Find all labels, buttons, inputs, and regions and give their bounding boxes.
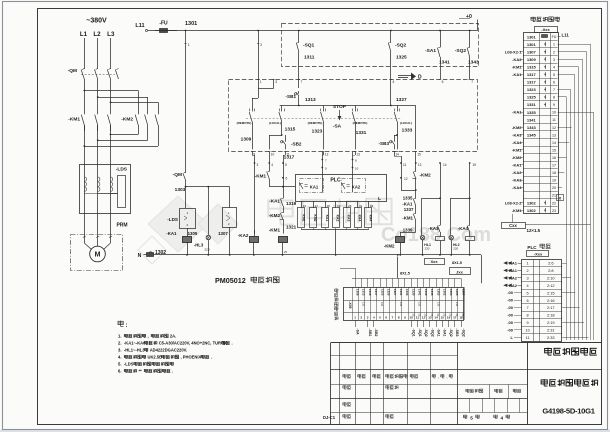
svg-text:2:15: 2:15 [547,290,555,295]
svg-text:1337: 1337 [404,207,414,212]
svg-text:DJ-C1: DJ-C1 [323,415,336,420]
svg-text:-KA3: -KA3 [512,132,522,137]
svg-text:1307: 1307 [461,289,465,296]
push button SB3 [396,134,398,136]
svg-text:1335: 1335 [412,289,416,296]
svg-text:1302: 1302 [155,250,166,256]
svg-text:4: 4 [527,284,529,288]
svg-text:2:10: 2:10 [547,276,555,281]
wire cascade right margin [558,44,591,46]
svg-text:-SQ1: -SQ1 [303,43,315,49]
svg-text:(LOCAL): (LOCAL) [400,121,412,125]
svg-text:1313: 1313 [305,97,316,103]
terminal strip feeder comb [352,278,461,280]
svg-text:-SA: -SA [356,329,360,336]
svg-text:3: 3 [527,277,529,281]
svg-text:-SB2: -SB2 [374,329,378,337]
svg-text:-KM1: -KM1 [512,64,523,69]
svg-text:-SQ2: -SQ2 [449,329,453,337]
cable box Kxx [425,259,445,265]
aux contact QM control [185,31,187,172]
svg-text:220: 220 [425,247,430,251]
svg-text:2: 2 [260,43,262,47]
svg-text:11: 11 [416,316,420,320]
svg-text:12×1.5: 12×1.5 [527,228,541,233]
wire to KM2 rail [415,106,417,150]
svg-text:-KA3: -KA3 [512,178,522,183]
svg-text:-SB3: -SB3 [455,329,459,337]
svg-text:KA1: KA1 [310,184,319,189]
wire rails below control box [252,152,254,156]
svg-text:-SA1: -SA1 [425,48,436,54]
svg-text:1309: 1309 [355,289,359,296]
wire phase feeders [84,38,86,68]
svg-text:131: 131 [436,302,440,307]
selector SA column 2 [281,106,283,112]
svg-text:5: 5 [527,291,529,295]
svg-text:12: 12 [404,177,408,181]
svg-text:.: . [232,341,233,346]
rail KA3 lamp HL1 [440,163,442,224]
contact KM2 nc [415,163,417,170]
svg-text:5: 5 [470,416,473,421]
svg-text:1: 1 [188,43,190,47]
svg-text:1: 1 [553,43,555,47]
svg-text:20: 20 [552,186,556,190]
direction arrow D [398,75,411,77]
revision row labels [343,374,346,378]
svg-text:1311: 1311 [304,55,315,61]
svg-text:-00: -00 [507,298,514,303]
svg-text:1327: 1327 [393,289,397,296]
svg-text:KA4: KA4 [368,215,372,222]
cable box Jxx [450,268,471,275]
push button SB1 [298,79,300,88]
svg-text:2:19: 2:19 [547,320,555,325]
svg-text:, PHOENIX: , PHOENIX [181,355,202,360]
svg-text:220: 220 [453,247,458,251]
limit switch SQ2 [390,31,392,42]
svg-text:13: 13 [552,133,556,137]
rail KA4 lamp HL2 [469,163,471,224]
svg-text:2:16: 2:16 [547,298,555,303]
svg-text:-Xxx: -Xxx [541,27,550,32]
svg-text:15: 15 [552,148,556,152]
svg-text:1317: 1317 [527,72,537,77]
project name title [545,348,552,355]
svg-text:1301: 1301 [185,21,197,27]
svg-text:131: 131 [418,302,422,307]
svg-text:11: 11 [286,153,290,157]
svg-text:220: 220 [204,248,209,252]
svg-text:131: 131 [455,302,459,307]
limit switch enclosure dashed box [282,24,479,67]
drawing name title [541,379,547,386]
svg-text:-KM2: -KM2 [121,117,133,123]
svg-text:1: 1 [527,262,529,266]
svg-text:-SA1: -SA1 [443,329,447,337]
svg-text:KA2: KA2 [352,184,361,189]
svg-text:17: 17 [453,316,457,320]
svg-text:-KA1: -KA1 [269,199,280,204]
svg-text:-KA4: -KA4 [458,226,469,231]
svg-text:17: 17 [552,164,556,168]
svg-text:8: 8 [553,96,555,100]
svg-text:11: 11 [526,336,530,340]
svg-text:1319: 1319 [286,201,297,206]
motor enclosure dash-dot box [71,235,123,271]
contact KA1 1319 [283,197,285,198]
svg-text:10: 10 [410,316,414,320]
motor protector LDS box [180,209,196,229]
title block frame [331,342,602,344]
svg-text:(REMOTE): (REMOTE) [308,121,323,125]
svg-text:1307: 1307 [527,49,537,54]
svg-text:8X1.5: 8X1.5 [452,261,462,265]
svg-text:-KA1: -KA1 [166,231,177,236]
svg-text:1333: 1333 [405,289,409,296]
svg-text:5: 5 [285,163,287,167]
svg-text:-KA1: -KA1 [512,110,522,115]
svg-text:-SB2: -SB2 [291,142,302,147]
svg-text:**: ** [139,369,143,374]
svg-text:PLC: PLC [527,245,537,250]
svg-text:7: 7 [471,80,473,84]
svg-text:PRM: PRM [116,223,127,229]
svg-text:-KA1: -KA1 [402,202,413,207]
svg-text:(REMOTE): (REMOTE) [237,121,252,125]
svg-text:1315: 1315 [527,65,537,70]
svg-text:16: 16 [447,316,451,320]
svg-text:-LDS: -LDS [116,167,128,173]
fuse mark row1 [542,35,548,38]
svg-text:L11: L11 [562,32,570,37]
svg-text:5.: 5. [118,362,122,367]
svg-text:1345: 1345 [527,132,537,137]
svg-text:-SB1: -SB1 [286,94,297,99]
svg-text:8X1.5: 8X1.5 [400,272,410,276]
svg-text:Xxx: Xxx [430,259,438,264]
svg-text:10: 10 [525,329,529,333]
wire bus in control box [280,105,416,107]
svg-text:-X05: -X05 [348,301,352,308]
svg-text:-00: -00 [507,290,514,295]
svg-text:6.: 6. [118,369,122,374]
svg-text:1333: 1333 [402,128,413,134]
svg-text:18: 18 [459,316,463,320]
svg-text:15: 15 [441,316,445,320]
svg-text:12: 12 [422,316,426,320]
svg-text:4: 4 [553,65,555,69]
coil KM1 [279,237,288,243]
svg-text:-KM2: -KM2 [384,244,395,249]
svg-text:1341: 1341 [418,289,422,296]
svg-text:12: 12 [325,153,329,157]
svg-text:(REMOTE): (REMOTE) [353,121,368,125]
svg-text:1335: 1335 [527,110,537,115]
svg-text:4: 4 [271,163,273,167]
svg-text:1343: 1343 [527,125,537,130]
flow switch LDS2 1307 [229,187,231,208]
svg-text:-SQ2: -SQ2 [455,48,467,54]
branch to HL3 and LDS2 [186,186,230,188]
svg-text:-00: -00 [507,320,514,325]
svg-text:L08-X2-2: L08-X2-2 [505,200,522,205]
svg-text:1302: 1302 [443,289,447,296]
table low voltage pump terminals [524,33,559,214]
svg-text:7: 7 [553,88,555,92]
svg-text:1307: 1307 [218,231,228,236]
limit switch SQ1 [298,31,300,42]
svg-text:-HL3: -HL3 [194,243,204,248]
svg-text:10: 10 [271,153,275,157]
svg-text:5: 5 [553,73,555,77]
current transformer box LDS [80,165,131,214]
svg-text:-KA1~-KA6: -KA1~-KA6 [124,341,146,346]
svg-text:1323: 1323 [527,87,537,92]
terminal strip field wires [355,320,357,327]
svg-text:1.: 1. [118,334,122,339]
svg-text:14: 14 [443,163,447,167]
svg-text:1301: 1301 [527,42,537,47]
svg-text:1323: 1323 [312,129,323,135]
svg-text:-FU: -FU [159,21,168,27]
sheet count [463,415,467,419]
notes title [118,321,123,327]
svg-text:7: 7 [527,306,529,310]
svg-text:6: 6 [286,177,288,181]
PLC input contact row [301,201,303,208]
svg-text:-SA: -SA [333,124,342,130]
svg-text:9: 9 [553,103,555,107]
svg-text:10: 10 [552,111,556,115]
svg-text:1315: 1315 [285,127,296,133]
svg-text:21: 21 [552,194,556,198]
svg-text:KM1: KM1 [301,214,305,221]
svg-text:1331: 1331 [356,130,367,136]
svg-text::: : [126,323,128,329]
svg-text:14: 14 [395,153,399,157]
svg-text:2: 2 [527,269,529,273]
svg-text:.: . [211,355,212,360]
svg-text:1339: 1339 [403,228,413,233]
svg-text:2.: 2. [118,341,122,346]
lamp HL3 [208,187,210,235]
title block rows [331,355,457,357]
svg-text:M: M [95,252,101,259]
title block columns [339,343,341,425]
label design row [343,385,346,389]
svg-text:13: 13 [428,316,432,320]
svg-text:4.: 4. [118,355,122,360]
svg-text:-KM1: -KM1 [512,147,523,152]
svg-text:-SQ2: -SQ2 [395,43,407,49]
svg-text:1309: 1309 [527,57,537,62]
svg-text:1302: 1302 [436,289,440,296]
svg-text:-SB3: -SB3 [379,141,390,146]
svg-text:1: 1 [260,80,262,84]
svg-text:1302: 1302 [527,200,537,205]
PLC output contact KA2 [342,179,366,193]
svg-text:13: 13 [356,153,360,157]
svg-text:8: 8 [527,314,529,318]
svg-text:14: 14 [552,141,556,145]
svg-text:N: N [138,253,142,259]
svg-text:19: 19 [552,179,556,183]
svg-text:131: 131 [362,302,366,307]
table PLC terminals [522,260,562,342]
rail KM1 coil branch [283,163,285,197]
svg-text:-KM2: -KM2 [269,213,281,218]
svg-text:1303: 1303 [175,187,186,193]
watermark text co188 [268,198,293,225]
svg-text:14: 14 [434,316,438,320]
svg-text:10: 10 [355,167,359,171]
svg-text:2A.: 2A. [170,334,176,339]
svg-text:1302: 1302 [527,208,537,213]
svg-text:-SQ2: -SQ2 [461,329,465,337]
svg-text:STOP: STOP [333,104,347,110]
svg-text:-SQ1: -SQ1 [418,329,422,337]
svg-text:X: X [559,196,562,201]
svg-text:1331: 1331 [399,289,403,296]
svg-text:1301: 1301 [527,34,537,39]
svg-text:4: 4 [501,416,504,421]
svg-text:22: 22 [552,201,556,205]
svg-text:-KM1: -KM1 [255,174,267,179]
svg-text:3: 3 [275,80,277,84]
terminal jumper links [545,42,547,46]
fuse FU control [145,29,147,31]
svg-text:(LOCAL): (LOCAL) [269,121,281,125]
svg-text:2: 2 [553,50,555,54]
svg-text:2:8: 2:8 [548,268,553,273]
svg-text:-QM: -QM [173,172,182,178]
svg-text:KA3: KA3 [347,215,351,222]
svg-text:-LDS: -LDS [124,362,134,367]
svg-text:KA4: KA4 [358,215,362,222]
svg-text:2:18: 2:18 [547,313,555,318]
svg-text:1317: 1317 [527,80,537,85]
svg-text:1321: 1321 [286,225,297,230]
wires to current transformer box [84,125,86,164]
contact KM1 [415,207,417,213]
svg-text:Jxx: Jxx [456,269,463,274]
svg-text:1305: 1305 [455,289,459,296]
svg-text:1315: 1315 [368,289,372,296]
svg-text:1343: 1343 [424,289,428,296]
svg-text:L1: L1 [80,31,88,38]
svg-text:-QM: -QM [68,68,77,74]
svg-text:Cxx: Cxx [509,223,517,228]
svg-text:131: 131 [399,302,403,307]
selector switch SA column 1 [252,98,254,111]
svg-text:-HL1~-HL3: -HL1~-HL3 [124,348,145,353]
svg-text:-KA1: -KA1 [512,163,522,168]
wire jog at box top [258,31,260,89]
svg-text:1335: 1335 [403,196,413,201]
wire crossover to KM2 branch [84,90,138,92]
svg-text:-SQ2: -SQ2 [424,329,428,337]
svg-text:3.: 3. [118,348,122,353]
svg-text:-KM2: -KM2 [420,173,432,178]
svg-text:15: 15 [417,153,421,157]
svg-text:18: 18 [552,171,556,175]
svg-text:5: 5 [442,80,444,84]
contact KM2 interlock [283,207,285,212]
svg-text:1325: 1325 [527,95,537,100]
svg-text:9: 9 [527,321,529,325]
switch SA1 [440,31,442,47]
limit switch SQ2 right [469,31,471,47]
svg-text:L3: L3 [107,31,115,38]
contact KM1 self hold [269,163,271,170]
svg-text:-00: -00 [507,313,514,318]
svg-text:-KA2: -KA2 [238,233,249,238]
svg-text:~380V: ~380V [86,18,107,25]
svg-text:16: 16 [552,156,556,160]
push button SB2 [282,135,285,137]
PLC row bottom bus [301,229,368,231]
svg-text:1305: 1305 [188,231,198,236]
table low voltage pump terminals header [531,17,536,22]
svg-text:2:12: 2:12 [547,283,555,288]
svg-text:1317: 1317 [374,289,378,296]
local control station dashed box [229,80,478,152]
svg-text:1325: 1325 [387,289,391,296]
svg-text:4: 4 [393,80,395,84]
label audit row [343,402,346,406]
wires LDS to motor [84,213,86,237]
svg-text:L2: L2 [93,31,101,38]
svg-text:PM05012: PM05012 [215,276,246,285]
svg-text:AD4222DGAC220V.: AD4222DGAC220V. [150,348,187,353]
svg-text:7: 7 [301,80,303,84]
svg-text:1309: 1309 [241,137,252,143]
svg-text:1345: 1345 [430,289,434,296]
svg-text:2:17: 2:17 [547,305,555,310]
svg-text:2:31: 2:31 [547,328,555,333]
svg-text:23: 23 [552,209,556,213]
svg-text:6: 6 [527,299,529,303]
svg-text:PLC: PLC [330,178,341,184]
PLC container box [296,175,387,202]
svg-text:-KA3: -KA3 [428,226,439,231]
svg-text:L08-X2-1: L08-X2-1 [505,49,522,54]
svg-text:.: . [172,369,173,374]
svg-text:-00: -00 [507,305,514,310]
wire 1327 from SQ2 [390,79,392,106]
svg-text:1303: 1303 [449,289,453,296]
label craft row [343,414,346,418]
cable box Cxx 12x1.5 [502,223,526,229]
svg-text:1323: 1323 [380,289,384,296]
selector SA column 3 [323,106,325,112]
svg-text:-Xxx: -Xxx [534,252,543,257]
svg-text:-KM1: -KM1 [402,216,413,221]
svg-text:,: , [148,334,149,339]
svg-text:-KM1: -KM1 [269,228,281,233]
svg-text:1327: 1327 [396,97,407,103]
watermark diamonds logo [138,196,238,264]
svg-text:G4198-5D-10G1: G4198-5D-10G1 [542,407,595,416]
svg-text:-00: -00 [507,327,514,332]
svg-text:-SQ2: -SQ2 [430,329,434,337]
svg-text:2:6: 2:6 [548,261,553,266]
svg-text:11: 11 [403,163,407,167]
svg-text:2:33: 2:33 [547,335,555,340]
svg-text:KA2: KA2 [336,215,340,222]
